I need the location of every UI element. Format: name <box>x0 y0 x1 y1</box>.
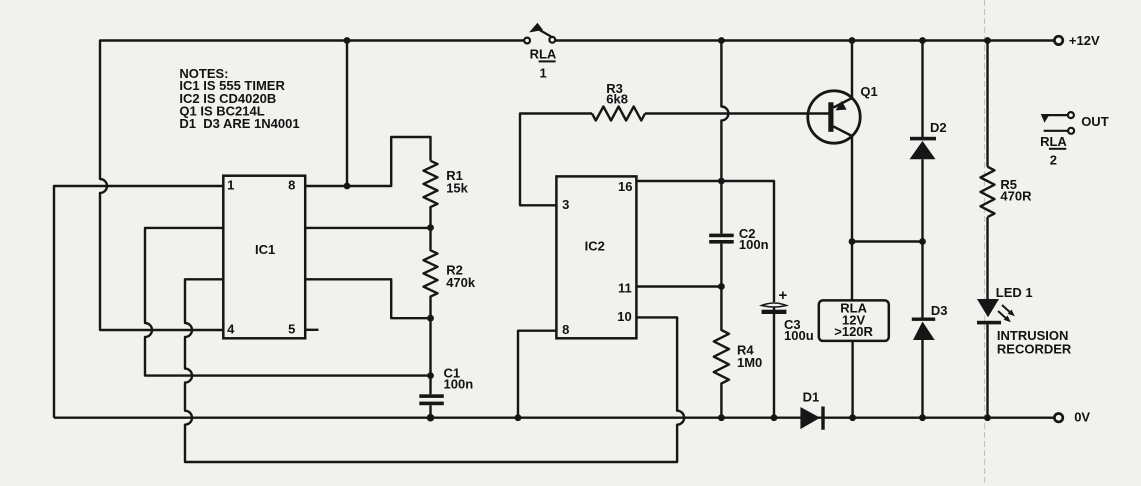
svg-text:5: 5 <box>288 321 295 336</box>
svg-text:8: 8 <box>562 322 569 337</box>
svg-text:D3: D3 <box>931 303 948 318</box>
svg-text:100n: 100n <box>739 237 769 252</box>
svg-text:D1: D1 <box>803 390 820 405</box>
svg-text:RLA: RLA <box>1040 134 1067 149</box>
svg-text:1: 1 <box>540 66 547 81</box>
svg-text:2: 2 <box>1050 153 1057 168</box>
svg-text:0V: 0V <box>1074 409 1090 424</box>
svg-text:470k: 470k <box>446 275 476 290</box>
svg-text:6k8: 6k8 <box>606 91 628 106</box>
svg-text:IC1: IC1 <box>255 242 275 257</box>
svg-text:+: + <box>779 287 788 304</box>
svg-text:3: 3 <box>562 197 569 212</box>
svg-text:16: 16 <box>618 179 632 194</box>
svg-text:10: 10 <box>617 309 631 324</box>
svg-text:RECORDER: RECORDER <box>997 342 1072 357</box>
svg-text:IC2: IC2 <box>585 238 605 253</box>
svg-text:Q1: Q1 <box>860 84 877 99</box>
svg-text:LED 1: LED 1 <box>996 285 1033 300</box>
svg-text:100u: 100u <box>784 328 814 343</box>
svg-text:100n: 100n <box>444 377 474 392</box>
svg-text:8: 8 <box>288 177 295 192</box>
svg-text:470R: 470R <box>1000 189 1032 204</box>
svg-text:OUT: OUT <box>1081 114 1109 129</box>
svg-text:>120R: >120R <box>834 324 873 339</box>
svg-text:+12V: +12V <box>1069 33 1100 48</box>
svg-text:15k: 15k <box>446 180 468 195</box>
svg-text:11: 11 <box>618 280 632 295</box>
svg-text:RLA: RLA <box>530 47 557 62</box>
svg-text:D2: D2 <box>930 120 947 135</box>
svg-text:D1 D3 ARE 1N4001: D1 D3 ARE 1N4001 <box>179 116 299 131</box>
svg-text:1: 1 <box>227 177 234 192</box>
svg-text:1M0: 1M0 <box>737 355 762 370</box>
svg-text:4: 4 <box>227 321 235 336</box>
